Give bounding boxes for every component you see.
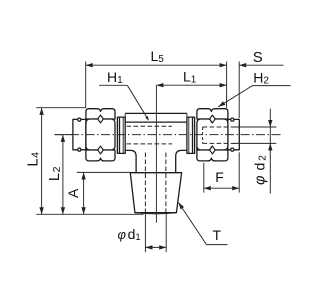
svg-text:L5: L5 xyxy=(151,48,165,65)
svg-text:L2: L2 xyxy=(47,166,63,181)
svg-text:S: S xyxy=(253,49,263,66)
svg-text:φd1: φd1 xyxy=(118,226,141,242)
svg-text:F: F xyxy=(215,169,224,185)
svg-text:L4: L4 xyxy=(25,151,41,166)
svg-text:H1: H1 xyxy=(107,69,123,86)
svg-text:H2: H2 xyxy=(253,69,269,86)
svg-text:T: T xyxy=(213,227,222,243)
svg-text:L1: L1 xyxy=(183,69,197,86)
svg-text:φd2: φd2 xyxy=(252,153,269,185)
svg-text:A: A xyxy=(65,188,81,198)
